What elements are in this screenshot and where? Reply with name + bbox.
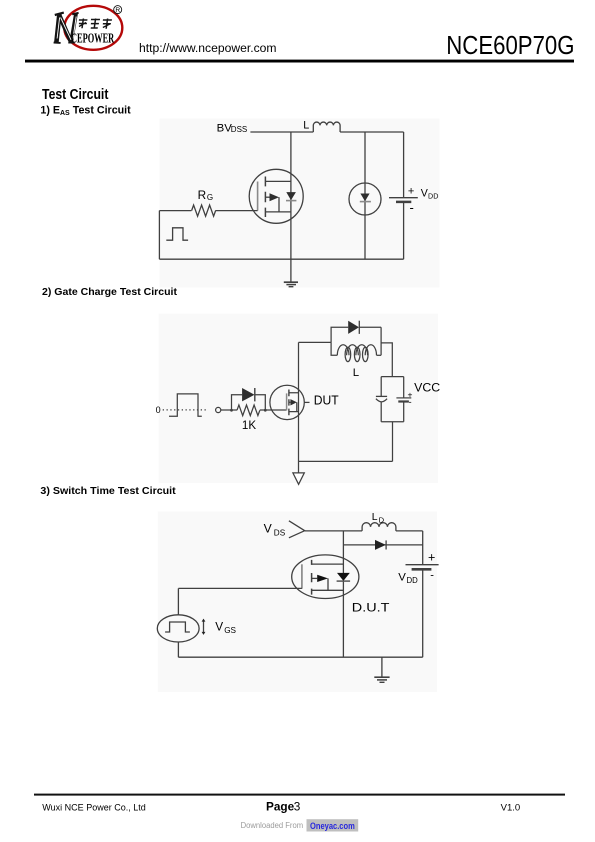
svg-text:VCC: VCC [414,381,440,394]
svg-text:+: + [428,551,435,565]
svg-text:1) EAS Test Circuit: 1) EAS Test Circuit [40,105,131,118]
svg-text:V: V [398,572,406,584]
svg-text:Oneyac.com: Oneyac.com [310,821,355,831]
svg-text:R: R [115,7,120,14]
svg-text:Downloaded From: Downloaded From [241,821,304,830]
svg-text:CEPOWER: CEPOWER [71,31,114,46]
svg-text:V: V [215,619,223,633]
svg-text:1K: 1K [242,418,256,432]
svg-text:3: 3 [294,799,301,813]
svg-text:D.U.T: D.U.T [352,601,390,615]
svg-text:DS: DS [274,529,286,538]
svg-text:2) Gate Charge Test Circuit: 2) Gate Charge Test Circuit [42,286,177,298]
svg-text:Wuxi NCE Power Co., Ltd: Wuxi NCE Power Co., Ltd [42,802,145,812]
svg-text:Page: Page [266,799,295,813]
svg-text:-: - [410,200,414,215]
svg-text:3) Switch Time Test Circuit: 3) Switch Time Test Circuit [40,485,176,497]
svg-text:Test Circuit: Test Circuit [42,87,109,103]
svg-text:-: - [430,569,434,581]
svg-text:DUT: DUT [314,393,339,408]
svg-text:DD: DD [428,192,438,201]
svg-text:R: R [198,188,207,202]
svg-text:http://www.ncepower.com: http://www.ncepower.com [139,41,277,55]
svg-text:DD: DD [407,576,419,585]
svg-text:D: D [379,516,385,525]
svg-text:L: L [303,120,309,132]
svg-text:+: + [408,185,414,197]
svg-text:L: L [353,367,359,379]
svg-text:G: G [207,193,213,202]
svg-text:V1.0: V1.0 [501,801,521,812]
svg-text:NCE60P70G: NCE60P70G [446,32,574,60]
svg-text:0: 0 [156,405,161,415]
svg-text:GS: GS [224,626,236,635]
svg-text:L: L [372,512,378,523]
svg-text:V: V [264,521,273,535]
svg-text:-: - [409,397,412,407]
svg-text:DSS: DSS [231,125,247,134]
